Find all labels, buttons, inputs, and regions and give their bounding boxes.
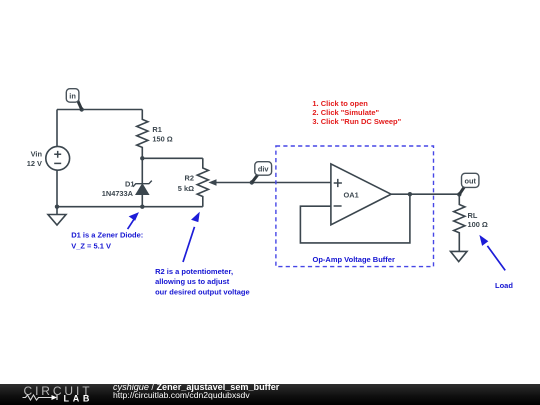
svg-text:Op-Amp Voltage Buffer: Op-Amp Voltage Buffer	[313, 255, 395, 264]
svg-text:div: div	[258, 164, 270, 173]
svg-text:Vin: Vin	[31, 150, 43, 159]
svg-text:R1: R1	[152, 125, 161, 134]
svg-text:12 V: 12 V	[27, 159, 42, 168]
svg-text:Load: Load	[495, 281, 513, 290]
svg-text:allowing us to adjust: allowing us to adjust	[155, 277, 230, 286]
svg-text:100 Ω: 100 Ω	[468, 220, 488, 229]
svg-text:out: out	[464, 176, 476, 185]
svg-text:D1: D1	[125, 180, 134, 189]
svg-text:D1 is a Zener Diode:: D1 is a Zener Diode:	[71, 230, 143, 239]
svg-text:our desired output voltage: our desired output voltage	[155, 287, 250, 296]
svg-text:2. Click "Simulate": 2. Click "Simulate"	[312, 108, 379, 117]
svg-text:3. Click "Run DC Sweep": 3. Click "Run DC Sweep"	[312, 117, 401, 126]
svg-text:1N4733A: 1N4733A	[102, 189, 134, 198]
svg-text:in: in	[69, 91, 76, 100]
svg-text:LAB: LAB	[64, 394, 94, 404]
svg-text:R2 is a potentiometer,: R2 is a potentiometer,	[155, 267, 233, 276]
svg-text:5 kΩ: 5 kΩ	[178, 184, 194, 193]
svg-text:1. Click to open: 1. Click to open	[312, 99, 368, 108]
svg-text:OA1: OA1	[344, 190, 359, 199]
svg-text:RL: RL	[468, 211, 478, 220]
svg-text:R2: R2	[185, 174, 194, 183]
svg-text:V_Z = 5.1 V: V_Z = 5.1 V	[71, 241, 111, 250]
svg-text:150 Ω: 150 Ω	[152, 135, 172, 144]
